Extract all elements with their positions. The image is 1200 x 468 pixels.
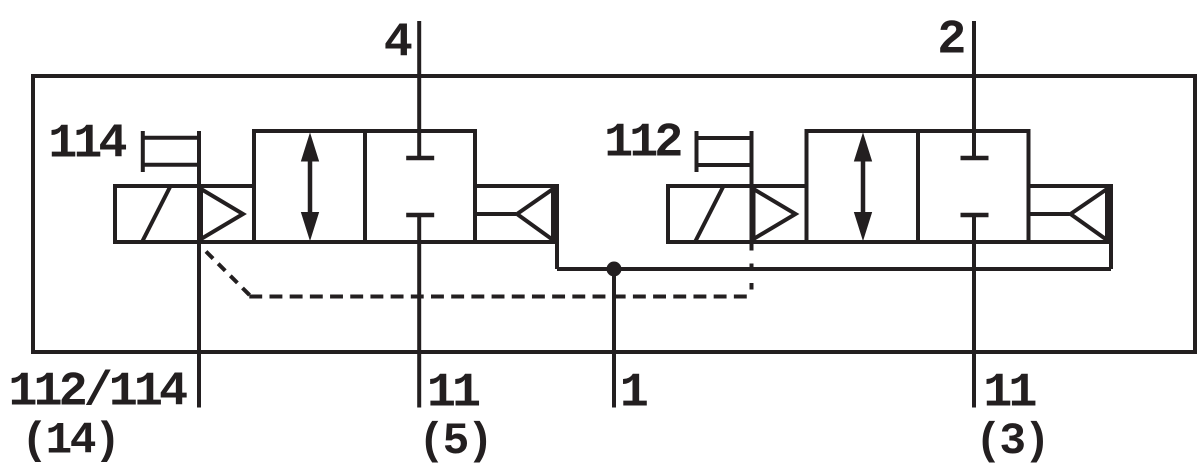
svg-text:2: 2 (937, 13, 964, 68)
svg-text:1: 1 (620, 366, 648, 421)
svg-text:112: 112 (604, 116, 681, 171)
svg-text:112/114: 112/114 (8, 365, 187, 420)
svg-text:(3): (3) (975, 417, 1048, 467)
svg-text:(14): (14) (21, 416, 118, 466)
svg-text:11: 11 (427, 366, 480, 421)
svg-text:11: 11 (983, 366, 1036, 421)
svg-text:(5): (5) (418, 417, 491, 467)
svg-text:114: 114 (48, 117, 126, 172)
svg-text:4: 4 (384, 16, 412, 71)
